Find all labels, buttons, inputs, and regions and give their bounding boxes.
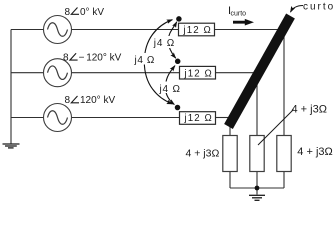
svg-text:0° kV: 0° kV <box>80 7 104 18</box>
svg-text:curto: curto <box>303 1 334 12</box>
svg-text:4 + j3Ω: 4 + j3Ω <box>297 146 332 158</box>
svg-text:8: 8 <box>65 7 71 18</box>
svg-text:j4 Ω: j4 Ω <box>153 38 175 49</box>
svg-text:j4 Ω: j4 Ω <box>159 84 181 95</box>
svg-text:8: 8 <box>65 95 71 106</box>
svg-text:8: 8 <box>63 52 69 63</box>
svg-text:j12 Ω: j12 Ω <box>184 68 213 79</box>
svg-text:j12 Ω: j12 Ω <box>183 25 212 36</box>
svg-text:j4 Ω: j4 Ω <box>134 55 155 66</box>
svg-text:curto: curto <box>231 11 247 18</box>
svg-text:4 + j3Ω: 4 + j3Ω <box>292 103 327 115</box>
svg-text:j12 Ω: j12 Ω <box>184 113 213 124</box>
svg-text:120° kV: 120° kV <box>80 95 115 106</box>
svg-text:120° kV: 120° kV <box>86 52 121 63</box>
svg-text:4 + j3Ω: 4 + j3Ω <box>186 147 220 159</box>
svg-text:−: − <box>79 52 85 63</box>
